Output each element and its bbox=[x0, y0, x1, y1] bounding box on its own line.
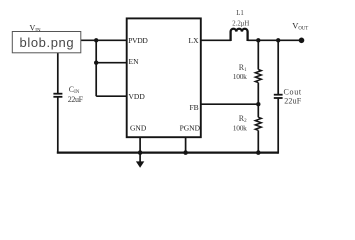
IC U1 body bbox=[127, 18, 201, 137]
svg-text:LX: LX bbox=[189, 36, 200, 45]
resistor R1 bbox=[255, 70, 261, 83]
wire inductor to Vout bbox=[248, 39, 302, 41]
svg-text:EN: EN bbox=[129, 57, 140, 66]
svg-text:Cout: Cout bbox=[284, 88, 302, 97]
node junction FB bbox=[256, 102, 260, 106]
ground symbol arrow bbox=[136, 153, 144, 168]
svg-text:22uF: 22uF bbox=[68, 95, 84, 104]
svg-text:PGND: PGND bbox=[180, 123, 201, 132]
wire R1 rail upper bbox=[257, 40, 259, 69]
svg-text:100k: 100k bbox=[233, 72, 247, 81]
capacitor C_IN plates bbox=[53, 94, 62, 97]
svg-text:CIN: CIN bbox=[69, 85, 80, 95]
node junction Cout rail on Vout wire bbox=[276, 38, 280, 42]
svg-text:VOUT: VOUT bbox=[292, 20, 308, 31]
wire Vin to PVDD pin bbox=[20, 39, 127, 41]
wire GND pin stub bbox=[139, 137, 141, 152]
svg-text:blob.png: blob.png bbox=[20, 35, 75, 50]
resistor R2 bbox=[255, 117, 261, 130]
node junction at EN branch bbox=[94, 61, 98, 65]
wire R1 to FB bbox=[257, 83, 259, 105]
wire R2 rail upper bbox=[257, 104, 259, 117]
node Vout terminal dot bbox=[299, 38, 305, 44]
wire Cin branch upper bbox=[57, 40, 59, 93]
svg-text:2.2μH: 2.2μH bbox=[232, 20, 249, 27]
node junction R1 rail on Vout wire bbox=[256, 38, 260, 42]
wire R2 rail lower bbox=[257, 130, 259, 152]
wire bottom ground rail bbox=[57, 152, 278, 154]
wire FB pin to divider bbox=[201, 103, 258, 105]
wire PGND pin stub bbox=[185, 137, 187, 152]
node junction PGND at ground rail bbox=[183, 150, 188, 155]
wire LX pin to inductor bbox=[201, 39, 231, 41]
node junction R2 at ground rail bbox=[256, 150, 261, 155]
capacitor Cout plates bbox=[274, 95, 283, 98]
node junction on Vin wire bbox=[94, 38, 98, 42]
wire Cout rail upper bbox=[277, 40, 279, 94]
svg-text:L1: L1 bbox=[236, 10, 244, 17]
svg-text:22uF: 22uF bbox=[284, 97, 302, 106]
svg-text:VDD: VDD bbox=[129, 92, 146, 101]
svg-text:100k: 100k bbox=[233, 124, 247, 133]
svg-text:PVDD: PVDD bbox=[128, 36, 148, 45]
broken image placeholder blob.png bbox=[12, 32, 81, 53]
wire Cin branch lower bbox=[57, 97, 59, 153]
wire Cout rail lower bbox=[277, 98, 279, 154]
svg-text:GND: GND bbox=[130, 123, 147, 132]
svg-text:FB: FB bbox=[190, 103, 199, 112]
wire to VDD pin bbox=[96, 95, 127, 97]
inductor L1 bbox=[231, 29, 248, 41]
node junction GND at ground rail bbox=[138, 150, 143, 155]
wire to EN pin bbox=[96, 62, 127, 64]
wire vertical branch from Vin junction down to VDD level bbox=[95, 40, 97, 96]
